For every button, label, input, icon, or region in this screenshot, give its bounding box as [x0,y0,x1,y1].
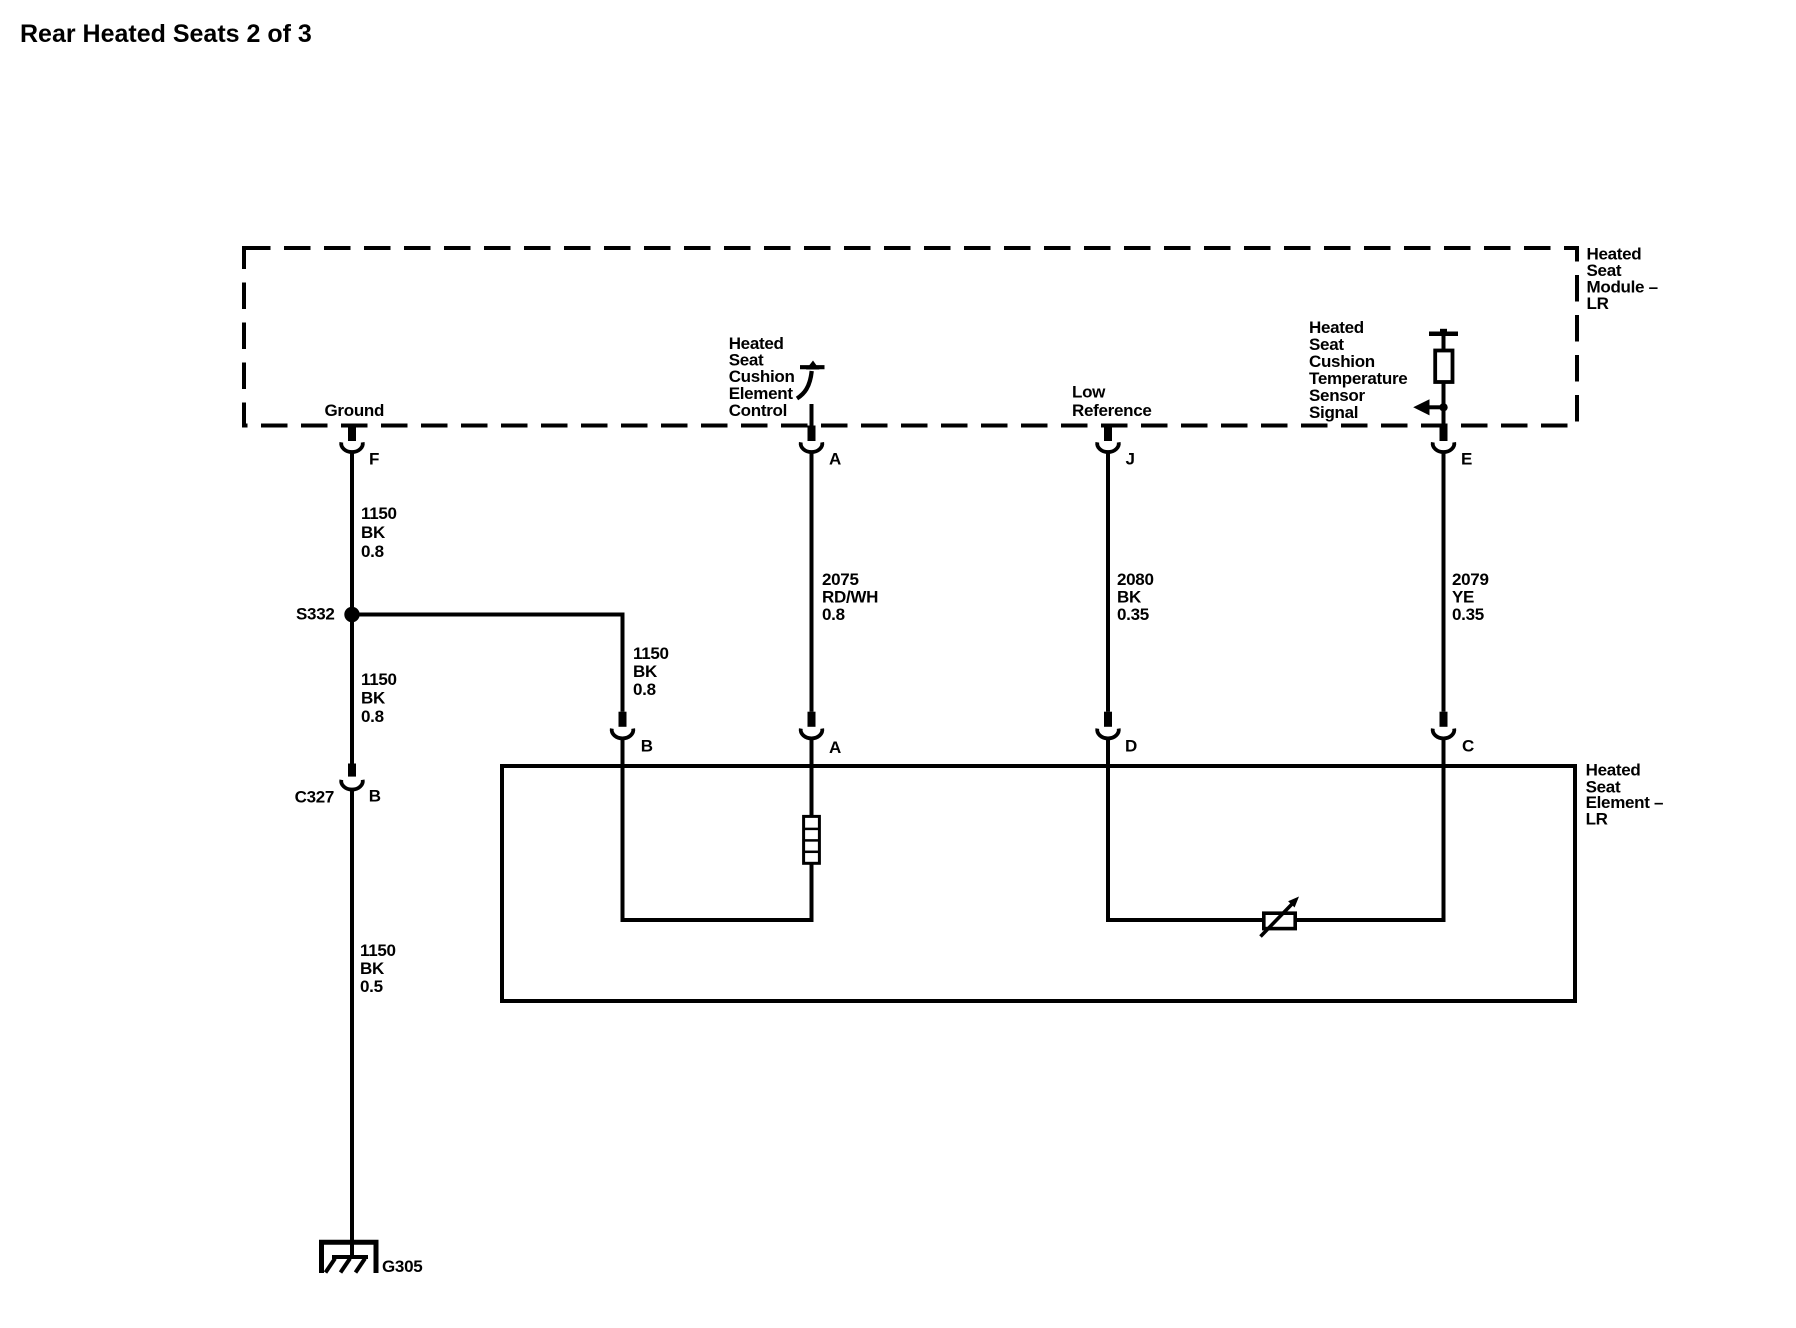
svg-text:BK: BK [633,662,658,681]
svg-text:2080: 2080 [1117,570,1154,589]
svg-text:G305: G305 [382,1257,422,1276]
svg-text:1150: 1150 [633,644,669,663]
label Heated Seat Cushion Element Control [729,334,795,420]
wire label 2080 BK 0.35 [1117,570,1154,624]
svg-text:BK: BK [361,689,386,708]
pin J connector at module [1097,426,1134,469]
svg-text:Rear Heated Seats 2 of 3: Rear Heated Seats 2 of 3 [20,20,312,48]
svg-text:BK: BK [1117,588,1142,607]
svg-text:YE: YE [1452,588,1474,607]
wire A inside element box [810,739,814,817]
wire F down [350,453,354,764]
wire C327 down to ground [350,789,354,1258]
wire J down from module [1106,453,1110,712]
svg-text:Signal: Signal [1309,403,1358,422]
pin E connector at module [1433,426,1472,469]
svg-text:A: A [829,738,841,757]
svg-text:Element: Element [729,384,794,403]
wire label 1150 BK 0.8 [361,504,397,561]
wire label 2075 RD/WH 0.8 [822,570,878,624]
svg-text:0.8: 0.8 [822,605,845,624]
pin B connector at element [612,712,653,756]
pin A connector at module [801,426,841,469]
switch: heated seat cushion element control [797,361,825,428]
label Low Reference [1072,383,1152,420]
svg-text:C327: C327 [295,788,334,807]
svg-text:E: E [1461,450,1472,469]
wire C inside element box [1442,739,1446,923]
svg-text:1150: 1150 [360,941,396,960]
svg-text:LR: LR [1587,294,1609,313]
pin A connector at element [801,712,841,757]
svg-text:0.8: 0.8 [361,542,384,561]
pin D connector at element [1097,712,1137,756]
svg-text:1150: 1150 [361,504,397,523]
svg-text:BK: BK [361,523,386,542]
module label [1587,245,1658,313]
pin C connector at element [1433,712,1474,756]
svg-text:F: F [369,450,379,469]
wire A below heater [810,863,814,922]
svg-text:BK: BK [360,959,385,978]
svg-text:Ground: Ground [325,401,385,420]
svg-text:J: J [1126,450,1135,469]
svg-text:RD/WH: RD/WH [822,588,878,607]
svg-text:Low: Low [1072,383,1106,402]
svg-text:2075: 2075 [822,570,859,589]
svg-text:B: B [641,737,653,756]
wire D to C horizontal [1106,918,1446,922]
heater element symbol [804,816,820,863]
wire label 1150 BK 0.8 branch [633,644,669,699]
thermistor temperature sensor symbol [1261,897,1300,937]
svg-text:0.5: 0.5 [360,977,383,996]
wire A down from module [810,453,814,712]
svg-text:S332: S332 [296,605,335,624]
svg-text:A: A [829,450,841,469]
wire B inside element box [621,739,625,923]
svg-text:0.35: 0.35 [1452,605,1484,624]
svg-text:D: D [1125,737,1137,756]
wire B to A horizontal [621,918,814,922]
svg-text:C: C [1462,737,1474,756]
svg-text:LR: LR [1586,810,1608,829]
element box Heated Seat Element LR [502,766,1575,1001]
wire D inside element box [1106,739,1110,923]
svg-text:0.8: 0.8 [633,680,656,699]
module Heated Seat Module LR dashed box [244,248,1577,426]
wire branch down to B [621,613,625,712]
temperature sensor resistor [1429,329,1458,427]
wire E down from module [1442,453,1446,712]
svg-text:0.35: 0.35 [1117,605,1149,624]
svg-text:2079: 2079 [1452,570,1489,589]
ground G305 [322,1242,423,1276]
splice S332 [296,605,360,624]
svg-text:0.8: 0.8 [361,707,384,726]
pin F connector at module [341,426,379,469]
wire label 1150 BK 0.8 below splice [361,670,397,726]
wire label 1150 BK 0.5 [360,941,396,996]
connector C327 [295,764,381,807]
label Heated Seat Cushion Temperature Sensor Signal [1309,318,1407,422]
svg-text:Reference: Reference [1072,401,1152,420]
wire label 2079 YE 0.35 [1452,570,1489,624]
svg-text:1150: 1150 [361,670,397,689]
svg-text:B: B [369,786,381,805]
element label [1586,761,1664,829]
sensor signal arrow [1413,399,1448,415]
svg-text:Control: Control [729,401,787,420]
wire S332 horizontal [352,613,623,617]
